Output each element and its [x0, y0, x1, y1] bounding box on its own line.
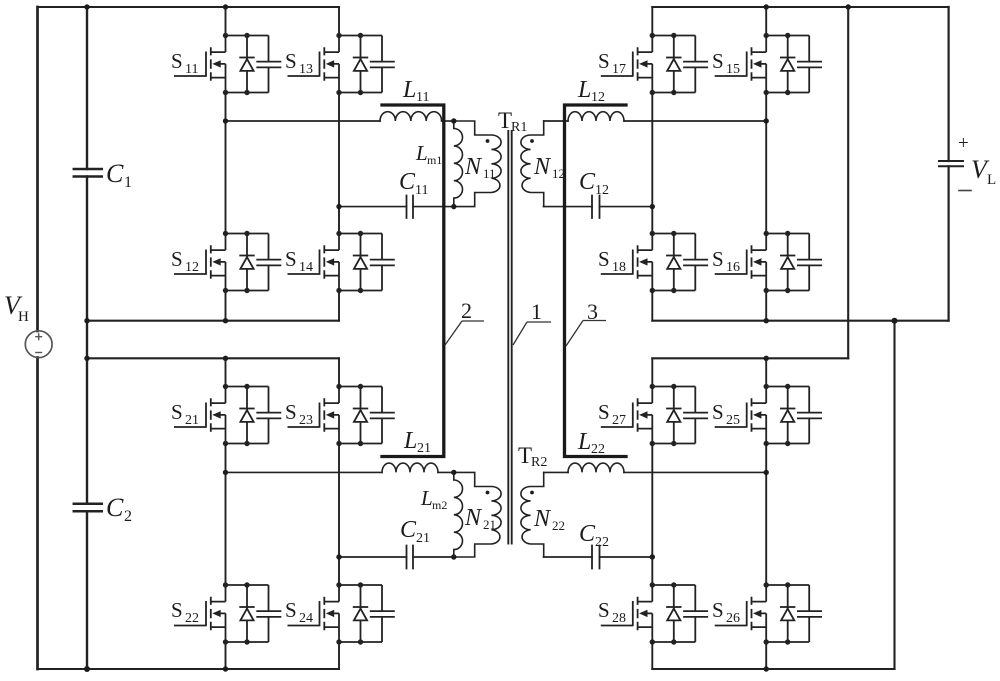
magnetizing inductor Lm2 — [454, 472, 463, 557]
switch S18 — [601, 231, 708, 293]
capacitor C2 — [74, 504, 102, 511]
svg-text:S: S — [598, 598, 610, 622]
wire: lower-right bridge top rail — [652, 357, 848, 359]
node: lower-right bridge midpoint A (C22 tap) — [650, 554, 655, 559]
svg-text:1: 1 — [531, 299, 542, 324]
polarity dot N11 — [486, 139, 490, 143]
wire: upper-left bridge midpoint to L11 — [226, 120, 381, 122]
wire: VL right rail — [947, 7, 949, 321]
node: lower-left bridge midpoint B (C21 tap) — [336, 554, 341, 559]
switch S25 — [715, 384, 822, 446]
wire: S24 leg to C21 — [339, 556, 407, 558]
svg-text:24: 24 — [299, 611, 313, 626]
svg-text:N: N — [464, 154, 483, 180]
svg-text:L: L — [577, 77, 591, 103]
VL minus sign — [959, 190, 971, 192]
svg-text:R2: R2 — [531, 455, 547, 470]
node: leg S12 / upper-left bottom rail — [223, 318, 228, 323]
wire: TR2 secondary top to L22 — [544, 471, 568, 473]
node: upper-left bridge midpoint A — [223, 118, 228, 123]
svg-text:m1: m1 — [427, 153, 442, 167]
svg-text:C: C — [399, 169, 416, 195]
capacitor C11 — [407, 196, 414, 219]
svg-text:18: 18 — [612, 260, 626, 275]
inductor L22 — [568, 463, 624, 472]
node: upper-right bridge midpoint B — [764, 118, 769, 123]
svg-text:L: L — [420, 486, 433, 510]
wire: lower-right bridge leg A — [651, 358, 653, 669]
svg-text:T: T — [498, 108, 512, 133]
capacitor C12 — [592, 196, 600, 219]
capacitor C22 — [592, 546, 600, 569]
wire: VL+ drop line — [847, 7, 849, 358]
callout leader for line 1 — [513, 322, 551, 345]
node: TR1 primary top — [451, 118, 456, 123]
wire: upper-right bridge leg A — [651, 7, 653, 321]
svg-text:N: N — [533, 506, 552, 532]
node: C-rail / top-left rail junction — [84, 4, 89, 9]
svg-text:S: S — [598, 400, 610, 424]
svg-text:1: 1 — [124, 174, 132, 191]
svg-text:T: T — [518, 443, 532, 468]
node: leg S11 / top-left rail junction — [223, 4, 228, 9]
capacitor C1 — [74, 169, 102, 177]
svg-text:17: 17 — [612, 62, 626, 77]
svg-text:21: 21 — [483, 517, 496, 532]
switch S11 — [174, 33, 281, 95]
svg-text:S: S — [171, 400, 183, 424]
svg-text:S: S — [712, 49, 724, 73]
node: TR2 primary bottom — [451, 554, 456, 559]
svg-text:12: 12 — [591, 90, 605, 105]
svg-text:S: S — [171, 247, 183, 271]
transformer TR1 secondary winding N12 — [521, 121, 544, 207]
svg-text:3: 3 — [587, 299, 598, 324]
svg-text:N: N — [464, 505, 483, 531]
svg-text:22: 22 — [595, 535, 609, 550]
thick link line 3 (right series bar) — [565, 105, 627, 457]
inductor L21 — [382, 463, 438, 472]
svg-text:21: 21 — [185, 413, 199, 428]
wire: upper-right bridge bottom rail — [652, 320, 948, 322]
wire: left outer rail (VH rail) — [36, 7, 39, 669]
wire: TR1 secondary top to L12 — [544, 120, 568, 122]
svg-text:23: 23 — [299, 413, 313, 428]
svg-text:13: 13 — [299, 62, 313, 77]
svg-text:2: 2 — [461, 298, 472, 323]
svg-text:12: 12 — [595, 183, 609, 198]
svg-text:C: C — [106, 159, 124, 188]
node: lower-left bridge midpoint A — [223, 470, 228, 475]
svg-text:27: 27 — [612, 413, 626, 428]
node: leg S16 / upper-right bottom rail — [764, 318, 769, 323]
switch S27 — [601, 384, 708, 446]
wire: C11 to TR1 primary bottom node — [413, 206, 454, 208]
svg-text:R1: R1 — [511, 120, 527, 135]
node: leg S25 / lower-right top rail — [764, 356, 769, 361]
node: C-rail / bottom-left rail — [84, 666, 90, 672]
svg-text:15: 15 — [726, 62, 740, 77]
wire: upper-right bridge leg B — [765, 7, 767, 321]
switch S28 — [601, 582, 708, 644]
input source VH — [25, 331, 52, 358]
svg-text:C: C — [106, 493, 124, 522]
wire: upper-left bridge leg A — [225, 7, 227, 321]
svg-text:21: 21 — [416, 531, 430, 546]
svg-text:N: N — [533, 154, 552, 180]
wire: L22 to lower-right bridge midpoint — [624, 471, 766, 473]
svg-text:+: + — [958, 133, 969, 154]
transformer TR1 primary winding N11 — [454, 121, 501, 207]
node: upper-right bridge midpoint A (C12 tap) — [650, 204, 655, 209]
node: VL- drop / upper-right bottom rail — [892, 318, 898, 324]
node: leg S15 / top-right rail junction — [764, 4, 769, 9]
switch S12 — [174, 231, 281, 293]
transformer core (line 1) — [508, 131, 511, 544]
wire: C21 to TR2 primary bottom node — [413, 556, 454, 558]
svg-text:S: S — [285, 49, 297, 73]
svg-text:C: C — [579, 169, 596, 195]
wire: top-left rail — [38, 6, 340, 8]
wire: lower-left bridge leg B — [338, 358, 340, 669]
svg-text:22: 22 — [552, 518, 565, 533]
svg-text:22: 22 — [185, 611, 199, 626]
wire: S14 leg to C11 — [339, 206, 407, 208]
svg-text:11: 11 — [416, 90, 429, 105]
svg-text:S: S — [171, 598, 183, 622]
wire: VL- drop line — [893, 321, 895, 669]
node: VL+ drop / top-right rail junction — [846, 4, 851, 9]
wire: TR1 secondary bottom to C12 — [544, 206, 593, 208]
node: leg S26 / bottom-right rail — [764, 666, 769, 671]
polarity dot N12 — [530, 139, 534, 143]
svg-text:C: C — [400, 517, 417, 543]
svg-text:m2: m2 — [432, 498, 447, 512]
switch S24 — [288, 582, 395, 644]
inductor L11 — [380, 112, 442, 121]
svg-text:S: S — [712, 247, 724, 271]
node: upper-left bridge midpoint B (C11 tap) — [336, 204, 341, 209]
svg-text:S: S — [285, 400, 297, 424]
wire: upper-left bridge leg B — [338, 7, 340, 321]
wire: L21 to TR2 primary node — [438, 471, 454, 473]
node: TR1 primary bottom — [451, 204, 456, 209]
switch S22 — [174, 582, 281, 644]
wire: upper-left bridge bottom rail — [87, 320, 339, 322]
svg-text:12: 12 — [552, 166, 565, 181]
svg-text:S: S — [285, 598, 297, 622]
svg-text:S: S — [598, 247, 610, 271]
svg-text:S: S — [285, 247, 297, 271]
magnetizing inductor Lm1 — [454, 121, 463, 207]
wire: bottom-right rail — [652, 668, 894, 670]
svg-text:11: 11 — [185, 62, 198, 77]
node: lower-right bridge midpoint B — [764, 470, 769, 475]
wire: C22 to S28 leg — [600, 556, 653, 558]
wire: bottom-left rail — [38, 668, 340, 670]
switch S14 — [288, 231, 395, 293]
wire: lower-right bridge leg B — [765, 358, 767, 669]
svg-text:C: C — [579, 521, 596, 547]
svg-text:S: S — [712, 400, 724, 424]
node: TR2 primary top — [451, 470, 456, 475]
switch S15 — [715, 33, 822, 95]
svg-text:S: S — [171, 49, 183, 73]
node: leg S21 / lower-left top rail — [223, 356, 228, 361]
wire: lower-left bridge leg A — [225, 358, 227, 669]
svg-text:S: S — [712, 598, 724, 622]
svg-text:L: L — [577, 429, 591, 455]
svg-text:16: 16 — [726, 260, 740, 275]
node: C-rail / lower-left top rail — [84, 356, 89, 361]
svg-text:28: 28 — [612, 611, 626, 626]
wire: input cap rail — [86, 7, 88, 669]
svg-text:L: L — [402, 77, 416, 103]
thick link line 2 (left series bar) — [382, 105, 444, 457]
node: C-rail / upper-left bottom rail — [84, 318, 89, 323]
output capacitor VL — [939, 161, 963, 166]
svg-text:S: S — [598, 49, 610, 73]
wire: lower-left bridge top rail — [87, 357, 339, 359]
svg-text:11: 11 — [483, 166, 496, 181]
callout leader for line 3 — [566, 321, 606, 347]
svg-text:25: 25 — [726, 413, 740, 428]
svg-text:2: 2 — [124, 508, 132, 525]
svg-text:L: L — [415, 141, 428, 165]
svg-text:12: 12 — [185, 260, 199, 275]
transformer TR2 primary winding N21 — [454, 472, 501, 557]
svg-text:11: 11 — [415, 183, 428, 198]
svg-text:26: 26 — [726, 611, 740, 626]
wire: L12 to upper-right bridge midpoint — [624, 120, 766, 122]
switch S17 — [601, 33, 708, 95]
wire: top-right rail — [652, 6, 948, 8]
polarity dot N21 — [486, 491, 490, 495]
svg-text:L: L — [403, 428, 417, 454]
svg-text:22: 22 — [591, 442, 605, 457]
switch S21 — [174, 384, 281, 446]
wire: C12 to S18 leg — [600, 206, 653, 208]
capacitor C21 — [407, 546, 414, 569]
svg-text:14: 14 — [299, 260, 313, 275]
switch S16 — [715, 231, 822, 293]
node: leg S22 / bottom-left rail — [223, 666, 228, 671]
switch S26 — [715, 582, 822, 644]
wire: lower-left bridge midpoint to L21 — [226, 471, 383, 473]
svg-text:H: H — [18, 309, 29, 325]
wire: TR2 secondary bottom to C22 — [544, 556, 593, 558]
transformer TR2 secondary winding N22 — [521, 472, 544, 557]
callout leader for line 2 — [445, 321, 484, 345]
switch S23 — [288, 384, 395, 446]
svg-text:21: 21 — [417, 441, 431, 456]
inductor L12 — [568, 112, 624, 121]
switch S13 — [288, 33, 395, 95]
polarity dot N22 — [530, 491, 534, 495]
svg-text:L: L — [987, 172, 996, 188]
wire: L11 to TR1 primary node — [442, 120, 454, 122]
